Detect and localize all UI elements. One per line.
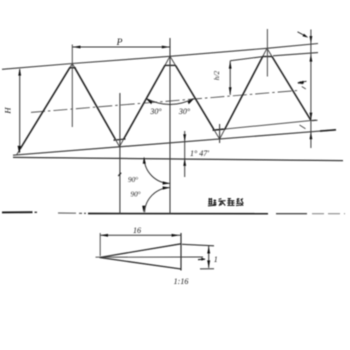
- dimension h/2 top line: [230, 56, 264, 60]
- arrow 1-47 up: [183, 159, 186, 166]
- dimension 16 line: [100, 234, 181, 236]
- flank tooth3 right: [267, 48, 272, 56]
- arrow 1-47 down: [183, 134, 186, 141]
- arrow h/2 top: [229, 61, 232, 68]
- arrow 16 left: [100, 234, 108, 237]
- centerline end arrow: [198, 258, 205, 260]
- arrow 1 bottom: [207, 260, 210, 267]
- wedge centerline: [96, 256, 204, 258]
- arrow 16 right: [172, 234, 180, 237]
- flank tooth2 right: [170, 56, 176, 65]
- bisector vertical peak2: [169, 38, 171, 214]
- arrow arc left: [146, 98, 153, 104]
- arrow h top up: [310, 54, 313, 61]
- dimension h/2 line: [229, 61, 231, 95]
- svg-text:30°: 30°: [178, 107, 191, 116]
- arrow arc right: [188, 98, 195, 104]
- svg-text:30°: 30°: [149, 107, 162, 116]
- arrow h/2 bottom: [229, 87, 232, 94]
- crest flat tooth2: [165, 64, 176, 66]
- flank tooth2 left: [165, 56, 170, 65]
- arrow arc90u top: [143, 157, 146, 164]
- svg-text:H: H: [3, 107, 13, 115]
- extension wedge apex: [99, 233, 101, 256]
- angle 1-47 callout vertical: [184, 131, 186, 177]
- svg-text:1: 1: [214, 255, 218, 264]
- root sharp right thick dash: [320, 130, 336, 131]
- dimension P line: [72, 46, 170, 48]
- svg-text:1° 47′: 1° 47′: [190, 149, 209, 158]
- root sharp line: [13, 130, 336, 155]
- angle arc 90 upper: [144, 158, 169, 184]
- bisector vertical peak3: [266, 29, 268, 77]
- arrow arc90l bottom: [142, 206, 145, 213]
- angle arc 30-30: [146, 99, 193, 105]
- bisector stub valley2: [219, 124, 221, 143]
- flank tooth1 right: [72, 64, 75, 68]
- arrow P right: [162, 46, 170, 49]
- crest flat extension right: [273, 53, 318, 56]
- small dash right1: [302, 87, 306, 90]
- crest flat tooth1: [69, 67, 76, 69]
- svg-text:P: P: [116, 38, 123, 48]
- tick 1 top: [182, 244, 214, 246]
- pitch line: [31, 90, 300, 112]
- angle arc 90 lower: [145, 188, 170, 213]
- wedge base: [180, 233, 182, 271]
- arrow f crest down: [310, 36, 313, 43]
- flank tooth3 left: [263, 48, 267, 56]
- arrow H bottom: [18, 146, 21, 154]
- arrow arc90u right: [163, 181, 170, 184]
- bisector vertical peak1: [71, 45, 73, 128]
- valley2 flat: [213, 129, 224, 130]
- dimension 1 line: [208, 246, 210, 268]
- crest flat tooth3: [262, 56, 272, 58]
- wedge apex: [100, 244, 182, 269]
- leader tick top right: [298, 32, 307, 37]
- root flat line valley1: [114, 139, 126, 140]
- svg-text:90°: 90°: [128, 176, 138, 184]
- flank tooth1 left: [70, 64, 73, 68]
- horizontal reference line: [13, 157, 343, 160]
- arrow h bottom down: [310, 113, 313, 120]
- arrow 1 top: [207, 246, 210, 253]
- bisector vertical valley1: [119, 93, 121, 214]
- dimension H line: [19, 69, 21, 153]
- arrow H top: [18, 68, 21, 75]
- tick 1 bottom: [200, 268, 214, 270]
- arrow P left: [73, 46, 81, 49]
- dash root flat right of dim: [312, 119, 318, 122]
- arrow f root up: [310, 132, 313, 139]
- dimension f+h+f vertical right: [310, 30, 312, 149]
- arrow arc90l right: [163, 186, 170, 189]
- small dash right2: [300, 125, 306, 129]
- svg-text:h/2: h/2: [212, 70, 221, 80]
- crest sharp line: [2, 44, 318, 70]
- small tick near valley vertical: [118, 173, 121, 176]
- svg-text:1:16: 1:16: [174, 277, 189, 286]
- svg-text:16: 16: [133, 226, 141, 235]
- svg-text:90°: 90°: [130, 191, 140, 199]
- thread axis: [2, 211, 33, 213]
- root flat line right: [213, 120, 317, 130]
- leader arrow pitch right: [298, 81, 307, 83]
- label thread axis (Chinese strokes): [208, 198, 243, 206]
